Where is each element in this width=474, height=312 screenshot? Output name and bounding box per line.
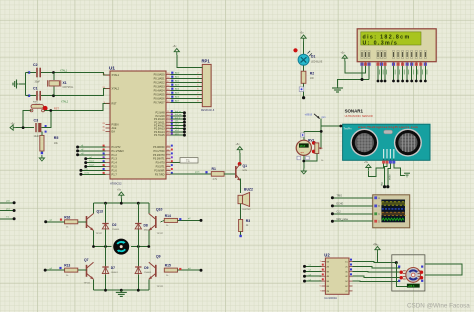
wire <box>46 221 65 223</box>
wire <box>41 89 110 96</box>
svg-text:ULN2003A: ULN2003A <box>324 296 337 300</box>
node <box>302 96 305 99</box>
svg-text:P3.2/INT0: P3.2/INT0 <box>153 153 165 157</box>
wire VSS <box>361 66 363 80</box>
sonar right transducer <box>394 129 422 157</box>
wire <box>25 72 29 74</box>
probe <box>205 171 207 173</box>
junction <box>302 160 305 163</box>
indicator red <box>238 162 242 166</box>
wire <box>16 127 34 129</box>
ground <box>303 169 305 172</box>
svg-text:TIP122: TIP122 <box>84 283 92 285</box>
svg-text:P0.3/AD3: P0.3/AD3 <box>154 85 165 89</box>
svg-text:R1: R1 <box>212 167 216 171</box>
probe <box>60 219 62 221</box>
ground <box>120 290 122 292</box>
svg-text:P2.7/A15: P2.7/A15 <box>154 133 165 137</box>
svg-text:PSEN: PSEN <box>112 123 119 127</box>
svg-text:D: D <box>378 220 380 223</box>
diode D9 <box>137 266 139 275</box>
power +5V <box>375 247 380 250</box>
sonar crystal <box>384 130 393 134</box>
svg-text:P0.1/AD1: P0.1/AD1 <box>154 77 165 81</box>
svg-text:2C: 2C <box>345 266 348 268</box>
svg-text:P3.4/T0: P3.4/T0 <box>156 161 166 165</box>
transistor Q9 <box>155 265 157 277</box>
pot arrow <box>314 114 320 119</box>
probe <box>299 87 304 92</box>
svg-text:lcd_rw: lcd_rw <box>175 113 182 116</box>
probe <box>301 133 305 137</box>
wire coil 4 <box>353 280 400 282</box>
svg-text:P0.2/AD2: P0.2/AD2 <box>154 81 165 85</box>
transistor Q7 <box>86 265 88 277</box>
wire to R1 <box>171 173 212 175</box>
motor terminals <box>312 141 316 145</box>
net label box T1 <box>180 158 198 163</box>
stepper motor M3 <box>406 268 421 283</box>
svg-text:P1.4: P1.4 <box>112 161 118 165</box>
terminal <box>28 95 30 97</box>
P1 pin label boxes <box>103 145 105 147</box>
wire <box>45 269 64 271</box>
svg-text:XTAL2: XTAL2 <box>112 87 120 91</box>
wire <box>29 95 36 97</box>
probe <box>59 267 61 269</box>
svg-text:XTAL2: XTAL2 <box>61 101 69 104</box>
svg-text:BUZZER: BUZZER <box>243 209 252 211</box>
svg-text:P1.5: P1.5 <box>112 165 118 169</box>
stepper outline <box>392 255 425 291</box>
wire COM <box>353 262 397 263</box>
resistor R1 <box>211 172 224 177</box>
svg-text:P3.7/RD: P3.7/RD <box>155 172 165 176</box>
svg-text:CL2: CL2 <box>337 212 342 214</box>
wire <box>178 269 202 271</box>
terminal <box>239 235 241 237</box>
junction <box>52 71 55 74</box>
wire <box>304 130 321 132</box>
U2 pins <box>322 261 326 263</box>
transistor Q10 <box>155 216 157 228</box>
wire <box>93 279 95 290</box>
wire <box>303 83 305 97</box>
wire <box>105 230 107 266</box>
svg-text:+88.8: +88.8 <box>305 113 313 117</box>
svg-text:MAV_pulse: MAV_pulse <box>337 218 349 221</box>
U1 left pins <box>106 74 111 76</box>
ground <box>41 155 43 158</box>
LCD data and control wires <box>377 66 379 81</box>
resistor R16 <box>65 220 78 224</box>
svg-text:P3.6/WR: P3.6/WR <box>154 168 164 172</box>
diode D7 <box>105 266 107 275</box>
svg-text:Q9: Q9 <box>156 255 161 259</box>
transistor Q1 <box>235 166 237 178</box>
svg-text:3C: 3C <box>345 271 348 273</box>
diode D2 <box>105 222 107 229</box>
driver U2 <box>325 258 349 294</box>
svg-text:RP1: RP1 <box>202 59 211 64</box>
waveform channel A <box>382 202 406 205</box>
wire <box>41 73 110 76</box>
svg-text:R5: R5 <box>54 136 59 140</box>
svg-text:P3.5/T1: P3.5/T1 <box>156 165 166 169</box>
svg-text:1N4001: 1N4001 <box>111 272 119 274</box>
svg-text:ALE: ALE <box>112 126 117 130</box>
svg-text:www.TheEngineeringProjects.com: www.TheEngineeringProjects.com <box>357 125 418 129</box>
svg-text:6C: 6C <box>345 286 348 288</box>
svg-text:P1.2: P1.2 <box>112 153 118 157</box>
svg-text:4C: 4C <box>345 276 348 278</box>
junction <box>361 78 364 81</box>
svg-text:Q7: Q7 <box>84 258 89 262</box>
power +5V <box>366 164 371 167</box>
svg-text:RST: RST <box>112 101 118 105</box>
wire gnd rail <box>338 80 370 86</box>
power +5V <box>237 147 242 150</box>
power +5V <box>174 49 179 52</box>
P1 port wires <box>78 146 106 148</box>
U1 right pins <box>166 74 171 76</box>
U2 output label boxes <box>350 259 352 261</box>
junction <box>395 261 398 264</box>
svg-text:key2: key2 <box>89 165 94 167</box>
probe <box>179 218 181 220</box>
wire <box>41 151 43 154</box>
capacitor C1 <box>36 91 38 101</box>
oscilloscope screen <box>381 200 405 223</box>
svg-text:RST: RST <box>33 101 38 103</box>
wire <box>93 203 95 213</box>
svg-text:R15: R15 <box>165 264 171 268</box>
svg-text:10uF: 10uF <box>34 135 40 138</box>
resistor R5 <box>40 135 44 151</box>
svg-text:C2: C2 <box>33 63 38 67</box>
svg-text:T1: T1 <box>186 159 190 163</box>
svg-text:XTAL1: XTAL1 <box>60 69 68 72</box>
svg-text:Q13: Q13 <box>97 210 104 214</box>
wire <box>156 219 178 221</box>
svg-text:echo: echo <box>387 174 391 180</box>
LCD pin name column <box>361 51 363 59</box>
probe <box>297 156 301 160</box>
svg-text:D2: D2 <box>112 223 116 227</box>
wire <box>78 221 87 223</box>
svg-text:lcd_e: lcd_e <box>175 117 181 119</box>
P3 pin label boxes <box>171 145 173 147</box>
svg-text:P1.3: P1.3 <box>112 157 118 161</box>
svg-text:7C: 7C <box>345 291 348 293</box>
wire <box>303 65 305 71</box>
wire <box>396 263 407 287</box>
probe <box>45 125 47 127</box>
wire <box>53 73 55 81</box>
wire <box>303 42 305 55</box>
svg-text:1N4001: 1N4001 <box>144 230 152 232</box>
svg-text:U: 0.3m/s: U: 0.3m/s <box>363 40 399 46</box>
svg-text:+88.8: +88.8 <box>408 284 415 288</box>
waveform channel C <box>382 212 406 215</box>
junction <box>92 245 95 248</box>
LCD screen <box>361 32 421 45</box>
svg-text:D1: D1 <box>311 55 315 59</box>
svg-text:EA: EA <box>112 130 116 134</box>
svg-text:TestPin: TestPin <box>344 127 353 130</box>
wire ECHO <box>388 164 391 187</box>
svg-text:CRYSTAL: CRYSTAL <box>63 86 74 89</box>
svg-text:TIP127: TIP127 <box>157 233 165 235</box>
indicator red <box>43 106 48 111</box>
svg-text:Q1: Q1 <box>243 164 248 168</box>
wire <box>93 258 95 265</box>
svg-text:R3: R3 <box>246 219 250 223</box>
probe <box>179 268 181 270</box>
wire <box>41 111 50 128</box>
svg-text:RESPACK-8: RESPACK-8 <box>201 109 215 112</box>
oscilloscope body <box>373 195 410 228</box>
svg-text:1N4001: 1N4001 <box>112 229 120 231</box>
wire <box>224 173 236 175</box>
U2 input wires <box>305 265 322 267</box>
waveform channel D <box>382 218 404 220</box>
LCD module LCD1 frame <box>357 29 436 62</box>
wire VDD <box>345 61 366 73</box>
junction <box>320 130 323 133</box>
resistor R3 <box>239 220 243 232</box>
svg-text:ULTRASONIC SENSOR: ULTRASONIC SENSOR <box>345 114 373 118</box>
P2 wires with net labels <box>171 112 185 114</box>
svg-text:P3.3/INT1: P3.3/INT1 <box>153 157 165 161</box>
microcontroller U1 <box>110 71 166 179</box>
wire <box>41 132 43 136</box>
svg-text:AT89C52: AT89C52 <box>110 182 122 186</box>
svg-text:D8: D8 <box>144 224 148 228</box>
LCD pin boxes <box>360 63 363 66</box>
motor encoder M1 <box>296 140 311 155</box>
junction <box>104 289 107 292</box>
capacitor C3 <box>35 123 37 132</box>
crystal X1 <box>49 81 59 86</box>
svg-text:P1.6: P1.6 <box>112 168 118 172</box>
wire <box>240 232 242 236</box>
waveform channel B <box>382 208 405 210</box>
power +5V <box>119 192 124 195</box>
svg-text:rpm: rpm <box>300 151 304 154</box>
svg-text:echo: echo <box>84 172 90 174</box>
wire <box>23 111 31 128</box>
power +5V <box>342 55 347 58</box>
wire loop <box>425 264 462 275</box>
wire <box>239 204 241 220</box>
resistor R14 <box>164 218 177 222</box>
wire <box>319 119 321 149</box>
svg-text:R13: R13 <box>64 264 70 268</box>
svg-text:lcd_rs: lcd_rs <box>175 110 182 113</box>
svg-text:SONAR1: SONAR1 <box>345 109 364 114</box>
junction <box>104 202 107 205</box>
button RESET <box>31 105 44 109</box>
svg-text:ECHO: ECHO <box>337 204 344 206</box>
junction <box>49 109 52 112</box>
svg-text:P0.0/AD0: P0.0/AD0 <box>154 73 165 77</box>
svg-text:P0.4/AD4: P0.4/AD4 <box>154 89 165 93</box>
transistor Q13 <box>86 216 88 228</box>
svg-text:TRIG: TRIG <box>337 196 343 198</box>
wire VEE <box>368 66 370 80</box>
svg-text:P3.0/RXD: P3.0/RXD <box>153 145 164 149</box>
wire bottom rail <box>94 289 149 291</box>
net stub wires at left edge <box>0 202 14 204</box>
svg-text:C: C <box>378 213 380 216</box>
ground <box>17 83 19 85</box>
svg-text:C1: C1 <box>33 87 38 91</box>
indicator red <box>293 48 297 52</box>
capacitor C2 <box>36 68 38 78</box>
stepper value display <box>407 284 420 288</box>
svg-text:trig: trig <box>380 182 384 186</box>
svg-text:D7: D7 <box>111 266 115 270</box>
LED D1 <box>308 51 312 56</box>
ground <box>337 86 339 88</box>
wire <box>44 103 110 110</box>
svg-text:1C: 1C <box>345 262 348 264</box>
svg-text:P1.1/T2EX: P1.1/T2EX <box>112 149 125 153</box>
svg-text:1N4001: 1N4001 <box>144 272 152 274</box>
wire <box>239 153 241 163</box>
junction <box>22 126 25 129</box>
wire <box>239 164 241 166</box>
wire <box>377 253 379 263</box>
svg-text:R16: R16 <box>64 215 70 219</box>
resistor R2 <box>301 71 306 83</box>
svg-text:U1: U1 <box>109 65 115 70</box>
sonar left transducer <box>350 129 378 157</box>
motor M2 <box>113 239 129 255</box>
oscilloscope input wires <box>332 197 372 199</box>
svg-text:P0.5/AD5: P0.5/AD5 <box>154 93 165 97</box>
svg-text:P1.7: P1.7 <box>112 172 118 176</box>
wire VCC <box>368 164 383 177</box>
diode D8 <box>137 222 139 229</box>
svg-text:P1.0/T2: P1.0/T2 <box>112 145 122 149</box>
svg-text:R14: R14 <box>165 214 171 218</box>
wire TRIG <box>385 164 388 187</box>
wire GND <box>394 164 405 176</box>
svg-text:P0.7/AD7: P0.7/AD7 <box>154 101 165 105</box>
svg-text:TIP127: TIP127 <box>96 233 104 235</box>
svg-text:U2: U2 <box>324 253 330 258</box>
svg-text:C3: C3 <box>34 119 39 123</box>
sonar board <box>343 124 430 160</box>
svg-text:TIP122: TIP122 <box>157 286 165 288</box>
svg-text:RST: RST <box>54 107 59 110</box>
junction <box>52 94 55 97</box>
wire <box>120 199 122 204</box>
resistor pack RP1 <box>202 64 211 106</box>
svg-text:Q10: Q10 <box>156 208 163 212</box>
svg-text:NPN: NPN <box>243 170 248 172</box>
wire <box>131 231 149 247</box>
wire <box>29 72 36 74</box>
wire <box>171 162 181 164</box>
P0 bus wires to RP1 <box>171 74 203 76</box>
wire coil 2 <box>353 270 400 273</box>
terminal <box>28 71 30 73</box>
power +5V <box>10 125 13 130</box>
svg-text:18.8: 18.8 <box>299 144 305 148</box>
svg-text:P3.1/TXD: P3.1/TXD <box>153 149 164 153</box>
wire <box>105 274 107 290</box>
stepper left terminals <box>398 266 400 268</box>
svg-text:X1: X1 <box>63 81 67 85</box>
resistor R13 <box>65 268 78 272</box>
svg-text:R2: R2 <box>310 72 314 76</box>
svg-text:5C: 5C <box>345 281 348 283</box>
svg-text:RV1: RV1 <box>308 138 315 142</box>
wire top rail <box>94 202 149 204</box>
svg-text:D9: D9 <box>144 266 148 270</box>
oscilloscope channel inputs <box>374 196 377 199</box>
svg-text:30pF: 30pF <box>35 81 41 84</box>
svg-text:rpm: rpm <box>322 116 326 119</box>
svg-text:P0.6/AD6: P0.6/AD6 <box>154 97 165 101</box>
svg-text:pwm: pwm <box>195 172 200 174</box>
wire <box>78 269 87 271</box>
svg-text:CSDN @Wine Facosa: CSDN @Wine Facosa <box>407 303 470 310</box>
power +5V <box>301 35 306 38</box>
svg-text:BUZ2: BUZ2 <box>244 188 253 192</box>
svg-text:XTAL1: XTAL1 <box>112 73 120 77</box>
sonar pins <box>383 149 385 159</box>
wire <box>94 231 112 247</box>
svg-text:LED-BLUE: LED-BLUE <box>311 61 323 63</box>
terminal <box>41 152 43 154</box>
resistor R15 <box>164 268 177 272</box>
wire coil 1 <box>353 266 400 267</box>
potentiometer RV1 <box>315 143 319 154</box>
wire <box>177 55 203 67</box>
wire <box>304 154 317 162</box>
stepper right terminals <box>421 266 423 268</box>
wire coil 3 <box>353 276 400 277</box>
svg-text:key1: key1 <box>89 161 94 163</box>
wire to sonar test pin <box>321 125 342 127</box>
wire <box>105 203 107 222</box>
wire <box>178 219 202 221</box>
ground <box>404 172 410 174</box>
